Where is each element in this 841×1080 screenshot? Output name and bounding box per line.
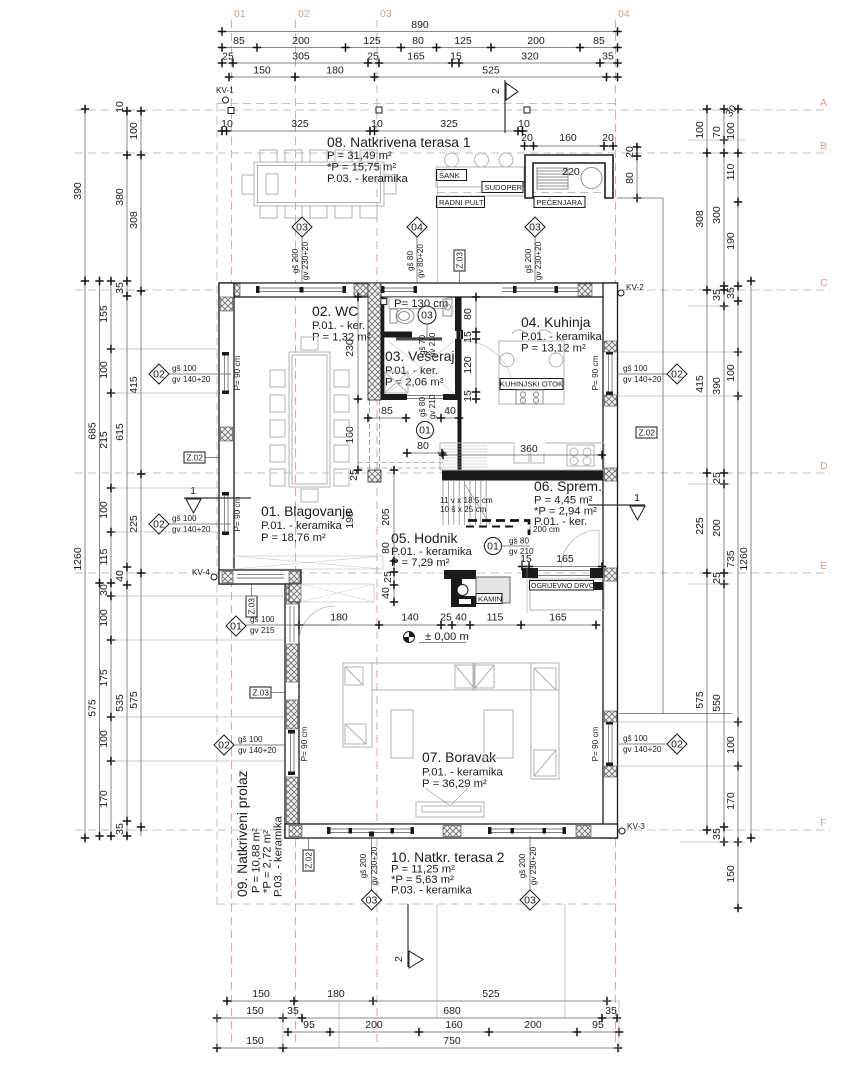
svg-text:P.03. - keramika: P.03. - keramika <box>391 885 473 897</box>
svg-text:25: 25 <box>711 472 723 484</box>
svg-text:20: 20 <box>602 132 614 144</box>
svg-text:390: 390 <box>72 182 84 200</box>
bottom dim row 150/35/680/35 <box>213 1005 621 1022</box>
svg-text:Z.02: Z.02 <box>639 429 656 438</box>
coffee tables <box>391 710 513 758</box>
svg-text:125: 125 <box>363 35 381 47</box>
svg-text:380: 380 <box>114 188 126 206</box>
svg-text:100: 100 <box>694 121 706 139</box>
svg-text:100: 100 <box>98 361 110 379</box>
svg-text:205: 205 <box>380 508 392 526</box>
svg-text:P= 90 cm: P= 90 cm <box>591 726 600 761</box>
ogrijevno drvo area <box>530 579 604 610</box>
radni pult label box <box>437 197 485 208</box>
top dim row 85/200/125/80/125/200/85 <box>218 35 622 52</box>
svg-text:10: 10 <box>518 118 530 130</box>
svg-text:550: 550 <box>711 694 723 712</box>
svg-text:680: 680 <box>443 1005 461 1017</box>
svg-text:P = 1,32 m²: P = 1,32 m² <box>312 332 371 344</box>
room 08 label <box>327 134 471 185</box>
top wall window W3 kitchen gs200 <box>502 284 578 296</box>
room 09 label rotated <box>234 770 285 897</box>
svg-text:225: 225 <box>128 515 140 533</box>
top wall hatch pier right <box>578 284 592 296</box>
veseraj south wall right <box>443 394 462 400</box>
right chain total 1260 <box>738 277 755 842</box>
bottom wall window W9 gs200 <box>327 825 414 837</box>
svg-text:02: 02 <box>298 8 310 20</box>
west wall door swing arc <box>299 606 335 642</box>
terrace table chair left <box>242 175 254 194</box>
wc nw corner square <box>381 299 387 305</box>
svg-text:gš 200: gš 200 <box>524 248 533 273</box>
kamin fireplace body <box>444 570 476 607</box>
svg-text:01. Blagovanje: 01. Blagovanje <box>261 503 353 519</box>
svg-text:120: 120 <box>462 356 474 374</box>
level marker 0.00 <box>404 631 469 643</box>
svg-text:125: 125 <box>454 35 472 47</box>
svg-text:P= 90 cm: P= 90 cm <box>591 355 600 390</box>
KV-1 marker <box>216 86 234 103</box>
KV-2 marker <box>618 283 644 296</box>
bottom block rectangle <box>339 1001 619 1048</box>
stairs text <box>440 496 493 514</box>
svg-text:35: 35 <box>711 289 723 301</box>
svg-text:150: 150 <box>246 1035 264 1047</box>
svg-text:07. Boravak: 07. Boravak <box>422 749 496 765</box>
left wall hatch corner top <box>221 297 233 311</box>
svg-text:P.01. - ker.: P.01. - ker. <box>385 365 438 377</box>
svg-text:200: 200 <box>524 1019 542 1031</box>
left wall window W5 gs100 <box>220 492 233 535</box>
bottom vertical connector x217 <box>216 1010 218 1048</box>
svg-text:165: 165 <box>407 51 425 63</box>
left wall hatch bottom corner <box>221 570 233 583</box>
section marker 2 top <box>490 80 518 133</box>
svg-text:04. Kuhinja: 04. Kuhinja <box>521 314 591 330</box>
terrace corner square marker 1 <box>228 108 234 114</box>
svg-text:25: 25 <box>711 572 723 584</box>
sofa top left <box>372 663 475 690</box>
svg-text:P = 13,12 m²: P = 13,12 m² <box>521 343 586 355</box>
door 01 dim 80 <box>403 422 446 458</box>
diamond 02 right window2 <box>617 734 687 754</box>
svg-text:gš 100: gš 100 <box>623 734 648 743</box>
svg-text:gv 230+20: gv 230+20 <box>370 846 379 885</box>
svg-text:40: 40 <box>380 587 392 599</box>
svg-text:360: 360 <box>520 443 538 455</box>
diamond 02 west window <box>214 735 285 755</box>
section marker 1 left <box>184 485 251 513</box>
top wall window W1 gs200 <box>256 284 346 296</box>
kamin label box <box>476 594 502 604</box>
grid line B horizontal <box>75 152 830 154</box>
wc sliding door slab <box>396 337 442 340</box>
svg-text:325: 325 <box>440 118 458 130</box>
bottom wall hatch corner left <box>289 826 302 837</box>
grid line D horizontal <box>75 472 830 474</box>
svg-text:685: 685 <box>87 422 99 440</box>
pecenjara U structure <box>525 155 613 198</box>
sank label box <box>437 170 467 181</box>
dim 15/165 upper row <box>521 560 523 567</box>
svg-text:10 š x 25 cm: 10 š x 25 cm <box>440 505 487 514</box>
svg-text:± 0,00 m: ± 0,00 m <box>425 631 469 643</box>
svg-text:05. Hodnik: 05. Hodnik <box>391 530 457 546</box>
roof outline dashed bottom <box>217 903 616 905</box>
svg-text:85: 85 <box>593 35 605 47</box>
svg-text:01: 01 <box>230 621 242 633</box>
svg-text:gš 70: gš 70 <box>418 335 427 355</box>
svg-text:gv 210: gv 210 <box>428 394 437 419</box>
svg-text:10: 10 <box>221 118 233 130</box>
bottom extension line x437 <box>436 904 438 1018</box>
svg-text:150: 150 <box>252 988 270 1000</box>
svg-text:P= 90 cm: P= 90 cm <box>300 726 309 761</box>
svg-text:100: 100 <box>98 501 110 519</box>
svg-text:230: 230 <box>344 339 356 357</box>
svg-text:80: 80 <box>417 440 429 452</box>
svg-text:1260: 1260 <box>738 547 750 571</box>
diamond 02 left window1 <box>149 364 231 384</box>
left wall window W4 gs100 <box>220 352 233 394</box>
dim 205/80/25/40 vertical <box>344 466 398 606</box>
Z.02 box vertical bottom <box>303 838 314 871</box>
dining chair top <box>301 337 318 350</box>
blagovanje south wall band <box>219 570 301 584</box>
svg-text:*P = 15,75 m²: *P = 15,75 m² <box>327 162 396 174</box>
svg-text:02: 02 <box>153 519 165 531</box>
svg-text:gš 80: gš 80 <box>418 397 427 417</box>
svg-text:25: 25 <box>382 571 394 583</box>
diamond 01 door left <box>226 615 338 636</box>
left chain 685/575 <box>87 277 104 840</box>
sofa top right <box>473 663 559 690</box>
beam above hodnik dashed <box>358 463 443 469</box>
svg-text:215: 215 <box>98 431 110 449</box>
svg-text:2: 2 <box>490 88 502 94</box>
bottom vertical connector x283 <box>282 1010 284 1048</box>
svg-text:100: 100 <box>98 730 110 748</box>
corridor wall veseraj to kitchen counter <box>458 400 462 470</box>
right chain 100/308/415/225/575 <box>694 105 711 834</box>
terrace table chairs top <box>260 150 377 162</box>
svg-text:35: 35 <box>725 287 737 299</box>
ogrijevno drvo label box <box>530 581 595 591</box>
svg-text:15: 15 <box>450 51 462 63</box>
right wall band <box>603 283 618 838</box>
svg-text:10: 10 <box>114 101 126 113</box>
top wall hatch corner right <box>604 284 617 296</box>
svg-text:150: 150 <box>253 65 271 77</box>
dim 85/40 row with door 80 <box>364 405 463 422</box>
svg-text:35: 35 <box>114 282 126 294</box>
dining table <box>289 352 330 487</box>
top wall band <box>219 283 618 297</box>
boravak entry closet cross <box>301 584 374 602</box>
svg-text:160: 160 <box>445 1019 463 1031</box>
diamond 03 top left <box>291 217 312 283</box>
svg-text:gv 140+20: gv 140+20 <box>172 525 211 534</box>
dining chairs right column <box>334 370 349 486</box>
gallery edge thick dashed L <box>468 521 529 536</box>
kuhinjski otok label box <box>500 379 563 390</box>
svg-text:PEČENJARA: PEČENJARA <box>537 198 584 207</box>
svg-text:25: 25 <box>440 612 452 624</box>
grid line 04 vertical <box>615 20 617 1046</box>
pecenjara kettle circle <box>581 168 602 189</box>
grid line 02 vertical <box>295 20 297 1046</box>
svg-text:415: 415 <box>694 375 706 393</box>
svg-text:220: 220 <box>562 166 580 178</box>
pointer V lines <box>425 788 468 805</box>
svg-text:09. Natkriveni prolaz: 09. Natkriveni prolaz <box>234 770 250 897</box>
terrace square marker 3 <box>524 107 530 113</box>
svg-text:B: B <box>820 140 827 152</box>
svg-text:308: 308 <box>694 210 706 228</box>
boravak entry closet pier <box>289 584 301 602</box>
sank counter <box>436 167 524 187</box>
svg-text:04: 04 <box>618 8 630 20</box>
svg-text:95: 95 <box>592 1019 604 1031</box>
dining chairs left column <box>270 370 285 486</box>
kitchen counter <box>440 443 604 470</box>
svg-text:225: 225 <box>694 517 706 535</box>
svg-text:25: 25 <box>367 51 379 63</box>
left chain 10/380/35/615/40/535/35 <box>114 101 131 840</box>
roof outline dashed top <box>217 103 616 105</box>
left wall band <box>219 283 234 584</box>
Z.03 box vertical top <box>454 250 465 283</box>
svg-text:KV-1: KV-1 <box>216 86 234 95</box>
svg-text:gv 215: gv 215 <box>250 626 275 635</box>
dim 230/160 vertical line <box>344 293 362 474</box>
svg-text:200: 200 <box>527 35 545 47</box>
stairs treads <box>443 481 490 525</box>
svg-text:30: 30 <box>98 584 110 596</box>
Z.02 box right with leader <box>617 198 732 714</box>
dim row 165 top of ogrijevno <box>0 0 1 1</box>
svg-text:525: 525 <box>482 65 500 77</box>
terrace1 dim row 10/325/10/325/10 <box>218 118 530 135</box>
svg-text:E: E <box>820 560 827 572</box>
grid line 01 vertical <box>231 20 233 1046</box>
room 10 label <box>391 849 505 897</box>
svg-text:gš 100: gš 100 <box>172 364 197 373</box>
diamond 03 bottom left <box>359 832 382 911</box>
grid line 03 vertical <box>376 20 378 1046</box>
svg-text:170: 170 <box>725 792 737 810</box>
svg-text:P.03. - keramika: P.03. - keramika <box>327 173 409 185</box>
svg-text:85: 85 <box>233 35 245 47</box>
svg-text:gš 200: gš 200 <box>518 853 527 878</box>
top dim row 150/180/525 <box>225 65 622 82</box>
grid line E horizontal <box>75 572 830 574</box>
svg-text:750: 750 <box>443 1035 461 1047</box>
svg-text:C: C <box>820 277 828 289</box>
svg-text:RADNI PULT: RADNI PULT <box>439 198 484 207</box>
svg-text:200: 200 <box>292 35 310 47</box>
circle label 03 wc <box>418 306 436 338</box>
summer kitchen dim 20/160/20 <box>520 132 617 150</box>
svg-text:415: 415 <box>128 376 140 394</box>
svg-text:320: 320 <box>521 51 539 63</box>
beam above dashed between veseraj and pier <box>370 400 380 470</box>
hodnik pier hatch <box>368 470 381 482</box>
svg-text:160: 160 <box>344 426 356 444</box>
roof outline dashed over summer kitchen <box>437 192 614 194</box>
svg-text:100: 100 <box>725 736 737 754</box>
west wall hatch segments <box>287 586 298 604</box>
svg-text:1: 1 <box>190 485 196 497</box>
right wall window W6 kitchen gs100 <box>604 351 617 395</box>
veseraj east wall lower <box>455 339 462 395</box>
top wall hatch corner left <box>224 284 240 296</box>
veseraj south wall left <box>381 394 407 400</box>
svg-text:110: 110 <box>725 163 737 180</box>
bottom wall center hatch pier <box>443 826 461 837</box>
pecenjara grill <box>537 168 568 189</box>
right chain 70/300/35/390/25/200/25/550/35 <box>711 105 728 846</box>
left chain total 390/1260 <box>72 105 89 842</box>
veseraj east wall gap lines <box>456 331 458 339</box>
svg-text:575: 575 <box>694 691 706 709</box>
svg-text:190: 190 <box>725 232 737 250</box>
svg-text:gš 80: gš 80 <box>406 251 415 271</box>
room 07 boravak label <box>422 749 504 790</box>
dim 15/165 sprem row <box>518 553 606 613</box>
diamond 02 right window1 <box>617 364 687 384</box>
svg-text:615: 615 <box>114 423 126 441</box>
island hob <box>516 390 543 404</box>
svg-text:165: 165 <box>556 553 574 565</box>
top wall window W2 WC gs80 <box>381 284 417 296</box>
blagovanje closet cross north <box>233 556 383 569</box>
kitchen island <box>499 330 564 404</box>
room 04 kuhinja label <box>521 314 603 355</box>
wc/veseraj east wall upper <box>455 297 462 331</box>
svg-text:575: 575 <box>128 691 140 709</box>
sprem south wall left stub <box>522 568 538 578</box>
svg-text:1: 1 <box>634 492 640 504</box>
svg-text:40: 40 <box>114 570 126 582</box>
right chain 30/100/110/190/35/100/735/100/170/150 <box>723 103 742 912</box>
svg-text:735: 735 <box>725 550 737 568</box>
hodnik dim row 180/140/25/40/115/165 <box>295 612 600 630</box>
svg-text:308: 308 <box>128 211 140 229</box>
svg-text:115: 115 <box>98 548 110 565</box>
roof outline dashed left <box>216 104 218 905</box>
svg-text:gv 140+20: gv 140+20 <box>238 746 277 755</box>
svg-text:02. WC: 02. WC <box>312 303 358 319</box>
gallery edge second dashed <box>466 526 518 528</box>
svg-text:gv 230+20: gv 230+20 <box>529 846 538 885</box>
diamond 03 bottom right <box>518 836 540 910</box>
svg-text:35: 35 <box>605 1005 617 1017</box>
sprem south wall right stub <box>590 568 603 578</box>
extension lines left side <box>111 349 285 761</box>
section marker 1 right <box>588 492 645 520</box>
svg-text:ŠANK: ŠANK <box>439 171 460 180</box>
right wall window W7 boravak gs100 <box>604 721 617 766</box>
ogrijevno black square <box>594 582 604 590</box>
svg-text:Z.03: Z.03 <box>253 689 270 698</box>
svg-text:KV-3: KV-3 <box>627 822 645 831</box>
svg-text:P= 90 cm: P= 90 cm <box>233 355 242 390</box>
svg-text:70: 70 <box>711 126 723 138</box>
sank counter lower edge <box>436 195 524 197</box>
svg-text:gš 100: gš 100 <box>172 514 197 523</box>
svg-text:04: 04 <box>411 222 423 234</box>
terrace square marker 2 <box>376 107 382 113</box>
left chain fine 155/100/215/100/115/30/100/175/100/170 <box>98 277 115 840</box>
svg-text:25: 25 <box>348 469 360 481</box>
diamond 02 left window2 <box>149 514 231 534</box>
svg-text:P = 36,29 m²: P = 36,29 m² <box>422 778 487 790</box>
bottom wall window W10 gs200 <box>488 825 566 837</box>
svg-text:gš 200: gš 200 <box>291 248 300 273</box>
svg-text:150: 150 <box>725 865 737 883</box>
room 01 blagovanje label <box>261 503 353 544</box>
room 02 WC label <box>312 303 371 344</box>
svg-text:170: 170 <box>98 790 110 808</box>
svg-text:gš 100: gš 100 <box>238 735 263 744</box>
svg-text:03: 03 <box>296 222 308 234</box>
wc west wall black edge <box>381 297 385 399</box>
svg-text:525: 525 <box>482 988 500 1000</box>
svg-text:2: 2 <box>393 956 405 962</box>
svg-text:gv 230+20: gv 230+20 <box>534 241 543 280</box>
svg-text:575: 575 <box>87 699 99 717</box>
bottom extension line x565 <box>564 904 566 1018</box>
diamond 04 top middle <box>406 217 427 283</box>
svg-text:P.01. - ker.: P.01. - ker. <box>312 320 365 332</box>
west wall opening door Z <box>286 606 298 642</box>
svg-text:325: 325 <box>291 118 309 130</box>
wc door labels gs70/gv210 rotated <box>418 332 437 357</box>
room 03 veseraj label <box>385 348 455 389</box>
svg-text:165: 165 <box>549 612 567 624</box>
svg-text:25: 25 <box>222 51 234 63</box>
terrace1 vertical edge line <box>437 172 439 283</box>
terrace table chair right <box>384 175 396 194</box>
grid line F horizontal <box>75 829 830 831</box>
svg-text:11 v x 18.5 cm: 11 v x 18.5 cm <box>440 496 493 505</box>
top dim row 25/305/25/165/15/320/35 <box>218 51 622 68</box>
svg-text:KV-2: KV-2 <box>626 283 644 292</box>
svg-text:P.03. - keramika: P.03. - keramika <box>273 815 285 897</box>
svg-text:01: 01 <box>234 8 246 20</box>
right wall hatch blocks <box>605 341 617 352</box>
KV-4 marker <box>192 568 217 580</box>
bottom wall hatch right pier <box>576 826 591 837</box>
svg-text:KAMIN: KAMIN <box>478 595 502 604</box>
svg-text:gv 140+20: gv 140+20 <box>172 375 211 384</box>
bottom dim row 150/180/525 <box>223 988 611 1005</box>
svg-text:gv 140+20: gv 140+20 <box>623 745 662 754</box>
terrace table chairs bottom <box>260 206 377 218</box>
svg-text:40: 40 <box>444 405 456 417</box>
tv sideboard <box>416 802 484 817</box>
svg-text:gš 100: gš 100 <box>623 364 648 373</box>
svg-text:140: 140 <box>401 612 419 624</box>
kitchen door swing arc <box>463 341 513 391</box>
svg-text:F: F <box>820 817 826 829</box>
svg-text:180: 180 <box>330 612 348 624</box>
svg-text:15: 15 <box>462 331 474 343</box>
svg-text:SUDOPER: SUDOPER <box>485 183 523 192</box>
svg-text:P = 7,29 m²: P = 7,29 m² <box>391 557 450 569</box>
